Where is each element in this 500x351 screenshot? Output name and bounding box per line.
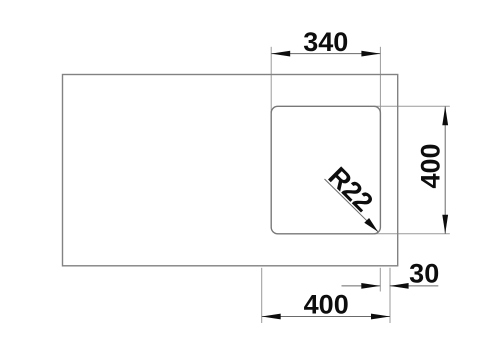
svg-text:400: 400 bbox=[416, 143, 446, 188]
svg-text:30: 30 bbox=[409, 259, 439, 289]
svg-text:340: 340 bbox=[303, 27, 348, 57]
svg-text:400: 400 bbox=[304, 289, 349, 319]
